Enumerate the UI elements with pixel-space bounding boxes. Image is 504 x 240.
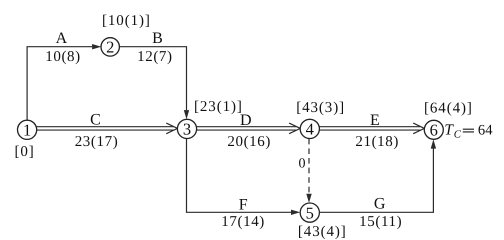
- node 2: [101, 38, 119, 56]
- svg-text:C: C: [90, 111, 101, 128]
- arrowhead C (open chevron): [166, 123, 177, 134]
- wire B: node2 right then down to node3: [119, 47, 186, 111]
- svg-text:[23(1)]: [23(1)]: [194, 99, 243, 115]
- wire F: node3 down then right to node5: [187, 139, 292, 213]
- arrowhead dummy (filled, down): [306, 194, 311, 203]
- svg-text:15(11): 15(11): [359, 214, 402, 230]
- svg-text:21(18): 21(18): [355, 134, 399, 150]
- wire C double line node1 to node3: [37, 127, 174, 130]
- wire D double line node3 to node4: [197, 127, 297, 130]
- svg-text:17(14): 17(14): [221, 214, 265, 230]
- node 5: [300, 203, 319, 222]
- svg-text:[64(4)]: [64(4)]: [424, 100, 473, 116]
- svg-text:G: G: [374, 196, 386, 213]
- wire E double line node4 to node6: [319, 127, 420, 130]
- svg-text:0: 0: [299, 157, 306, 172]
- svg-text:20(16): 20(16): [227, 134, 271, 150]
- arrowhead B (filled, down): [184, 110, 189, 119]
- svg-text:F: F: [239, 197, 248, 214]
- arrowhead D (open chevron): [289, 123, 300, 134]
- svg-text:[43(4)]: [43(4)]: [298, 224, 347, 239]
- svg-text:[0]: [0]: [14, 144, 34, 160]
- node 1: [18, 120, 37, 139]
- svg-text:2: 2: [106, 38, 114, 57]
- arrowhead A (filled, right): [92, 44, 101, 49]
- node 6: [424, 120, 443, 139]
- svg-text:C: C: [454, 128, 462, 140]
- arrowhead G (filled, up): [431, 139, 436, 148]
- svg-text:[43(3)]: [43(3)]: [296, 100, 345, 116]
- svg-text:64: 64: [478, 123, 493, 139]
- svg-text:[10(1)]: [10(1)]: [102, 13, 151, 29]
- svg-text:10(8): 10(8): [45, 49, 81, 65]
- svg-text:12(7): 12(7): [137, 49, 173, 65]
- arrowhead E (open chevron): [413, 123, 424, 134]
- svg-text:4: 4: [306, 120, 314, 139]
- svg-text:A: A: [56, 30, 68, 47]
- svg-text:1: 1: [23, 121, 31, 140]
- arrowhead F (filled, right): [291, 210, 300, 215]
- svg-text:B: B: [152, 30, 163, 47]
- node 3: [177, 119, 196, 138]
- svg-text:3: 3: [183, 120, 191, 139]
- svg-text:23(17): 23(17): [75, 134, 119, 150]
- wire A: node1 up then right to node2: [27, 47, 92, 121]
- node 4: [300, 119, 319, 138]
- wire G: node5 right then up to node6: [319, 149, 433, 213]
- svg-text:5: 5: [306, 203, 314, 222]
- dummy arrow 4 to 5 (dashed): [308, 139, 310, 197]
- svg-text:6: 6: [430, 121, 438, 140]
- svg-text:E: E: [370, 112, 380, 129]
